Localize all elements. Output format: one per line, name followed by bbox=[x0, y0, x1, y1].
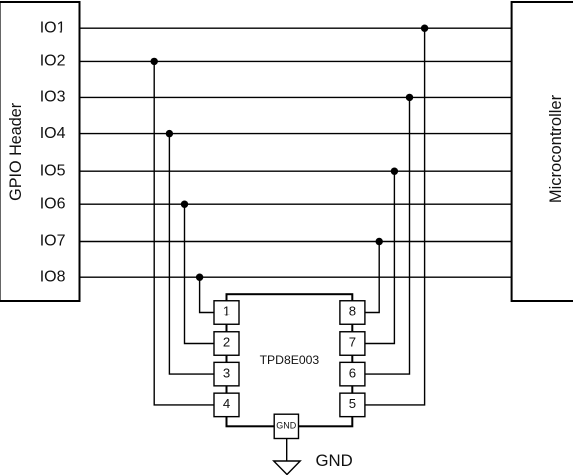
svg-text:GPIO Header: GPIO Header bbox=[7, 102, 25, 201]
svg-text:5: 5 bbox=[349, 396, 356, 411]
junction on IO4 bbox=[166, 130, 173, 137]
pin label IO1 foot patch bbox=[57, 31, 60, 34]
wire IO7 bbox=[80, 241, 512, 243]
U1 pin 5 bbox=[340, 393, 365, 417]
svg-text:IO2: IO2 bbox=[40, 53, 66, 70]
svg-text:2: 2 bbox=[223, 335, 230, 350]
wire IO4 bbox=[80, 133, 512, 135]
junction on IO5 bbox=[391, 168, 398, 175]
U1 pin 1 bbox=[214, 301, 239, 325]
svg-text:IO8: IO8 bbox=[40, 268, 66, 285]
svg-text:IO5: IO5 bbox=[40, 162, 66, 179]
wire IO5 bbox=[80, 170, 512, 172]
svg-text:IO3: IO3 bbox=[40, 89, 66, 106]
svg-text:1: 1 bbox=[223, 304, 230, 319]
ESD protection IC U1 TPD8E003 body bbox=[227, 294, 353, 426]
svg-text:8: 8 bbox=[349, 304, 356, 319]
svg-text:3: 3 bbox=[223, 365, 230, 380]
wire IO7 to pin 8 bbox=[365, 242, 379, 313]
junction on IO6 bbox=[181, 201, 188, 208]
svg-text:6: 6 bbox=[349, 365, 356, 380]
junction on IO7 bbox=[376, 238, 383, 245]
svg-text:IO6: IO6 bbox=[40, 195, 66, 212]
svg-text:7: 7 bbox=[349, 335, 356, 350]
U1 pin 8 bbox=[340, 301, 365, 325]
wire IO3 bbox=[80, 96, 512, 98]
wire IO3 to pin 6 bbox=[365, 97, 410, 374]
svg-text:4: 4 bbox=[223, 396, 230, 411]
wire IO1 to pin 5 bbox=[365, 28, 425, 405]
svg-text:IO7: IO7 bbox=[40, 233, 66, 250]
junction on IO3 bbox=[406, 94, 413, 101]
wire IO8 to pin 1 bbox=[200, 277, 214, 312]
svg-text:IO4: IO4 bbox=[40, 125, 66, 142]
wire IO5 to pin 7 bbox=[365, 171, 395, 343]
svg-text:Microcontroller: Microcontroller bbox=[547, 94, 565, 203]
junction on IO8 bbox=[196, 274, 203, 281]
U1 pin 7 bbox=[340, 332, 365, 356]
U1 pin 3 bbox=[214, 362, 239, 386]
junction on IO2 bbox=[151, 58, 158, 65]
Microcontroller U2 bbox=[512, 2, 573, 301]
wire GND pin to ground bbox=[286, 439, 288, 462]
U1 pin 2 bbox=[214, 332, 239, 356]
svg-text:GND: GND bbox=[276, 421, 297, 431]
wire IO4 to pin 3 bbox=[169, 134, 214, 375]
U1 pin 4 bbox=[214, 393, 239, 417]
wire IO8 bbox=[80, 276, 512, 278]
U1 pin 6 bbox=[340, 362, 365, 386]
ground symbol bbox=[274, 461, 301, 475]
wire IO1 bbox=[80, 27, 512, 29]
wire IO2 to pin 4 bbox=[154, 61, 214, 405]
wire IO2 bbox=[80, 60, 512, 62]
svg-text:GND: GND bbox=[316, 451, 353, 470]
svg-text:TPD8E003: TPD8E003 bbox=[260, 353, 320, 367]
U1 pin GND bbox=[274, 414, 298, 438]
wire IO6 bbox=[80, 203, 512, 205]
wire IO6 to pin 2 bbox=[185, 204, 214, 343]
svg-text:IO1: IO1 bbox=[40, 19, 66, 36]
junction on IO1 bbox=[421, 25, 428, 32]
GPIO Header connector J1 bbox=[0, 2, 80, 301]
